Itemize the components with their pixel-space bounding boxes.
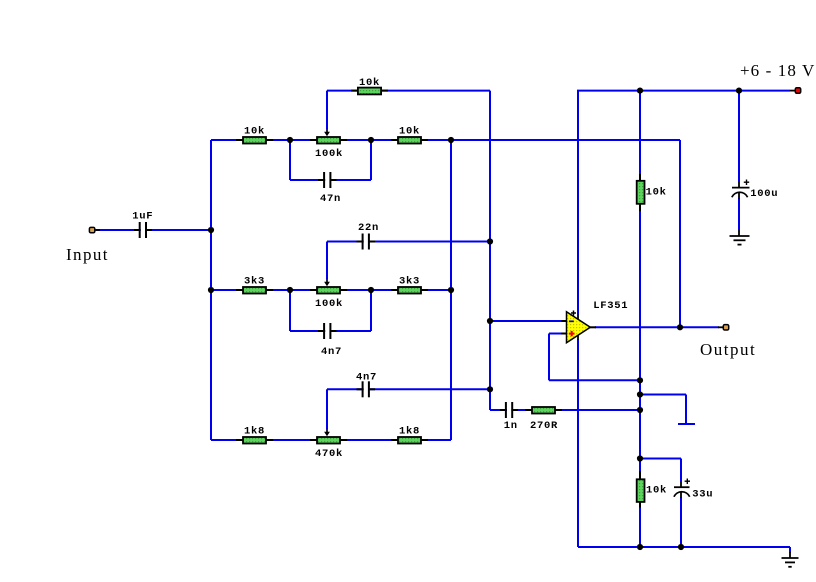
junction ground stub (637, 391, 643, 397)
wire V- supply vertical (577, 340, 579, 548)
terminal input (89, 227, 100, 232)
svg-text:4n7: 4n7 (321, 346, 342, 358)
svg-text:22n: 22n (358, 222, 379, 234)
junction bias top (637, 88, 643, 94)
svg-text:47n: 47n (320, 193, 341, 205)
junction band1 right cap (368, 137, 374, 143)
terminal output (718, 325, 729, 330)
svg-text:10k: 10k (244, 125, 265, 137)
wire 10k feedback row (327, 90, 490, 92)
wire band1 row (211, 139, 680, 141)
wire plus feedback row (549, 379, 640, 381)
wire input bus vertical (210, 140, 212, 440)
svg-text:10k: 10k (646, 186, 667, 198)
op-amp U1 LF351 (561, 300, 628, 343)
svg-text:100u: 100u (750, 188, 778, 200)
potentiometer 100k band1 (310, 129, 347, 160)
svg-text:+6 - 18 V: +6 - 18 V (740, 61, 815, 80)
wire inverting input (490, 320, 563, 322)
wire 33u leg lower (680, 498, 682, 548)
ground bottom right (782, 552, 799, 567)
svg-text:Output: Output (700, 340, 756, 359)
capacitor 33u electrolytic (674, 479, 713, 501)
junction band2 right bus (448, 287, 454, 293)
wire power rail (577, 90, 790, 92)
wire V+ supply vertical (577, 91, 579, 315)
svg-text:1n: 1n (504, 420, 518, 432)
resistor 10k bias upper (vertical) (637, 174, 667, 211)
potentiometer 470k band3 (310, 429, 347, 460)
junction band1 right bus (448, 137, 454, 143)
wire ground stub row (640, 394, 686, 396)
svg-text:1k8: 1k8 (244, 425, 265, 437)
svg-text:3k3: 3k3 (399, 275, 420, 287)
junction 270R bias (637, 407, 643, 413)
junction input node (208, 227, 214, 233)
wire 47n right leg (370, 140, 372, 180)
svg-text:10k: 10k (646, 484, 667, 496)
junction band2 left cap (287, 287, 293, 293)
resistor 10k band1 right (391, 125, 428, 143)
wire 33u row (640, 458, 681, 460)
junction 33u bottom rail (678, 544, 684, 550)
capacitor 22n (357, 222, 380, 250)
wire band2 row (211, 289, 451, 291)
wire wiper2 leg (326, 242, 328, 280)
junction band3 cap inverting bus (487, 386, 493, 392)
terminal power (790, 88, 801, 93)
resistor 10k band1 left (236, 125, 273, 143)
svg-text:270R: 270R (530, 420, 558, 432)
wire band3 cap row (327, 388, 490, 390)
wire 33u leg upper (680, 459, 682, 483)
wire ground stub vertical (685, 395, 687, 425)
wire right bus vertical (450, 140, 452, 440)
potentiometer 100k band2 (310, 279, 347, 310)
resistor 10k bias lower (vertical) (637, 471, 667, 508)
resistor 270R (525, 407, 562, 432)
wire 100u upper leg (738, 91, 740, 182)
wire 100u lower leg (738, 198, 740, 229)
svg-text:LF351: LF351 (593, 300, 628, 312)
junction inverting input (487, 318, 493, 324)
wire 4n7 bridge row (290, 330, 371, 332)
svg-text:100k: 100k (315, 148, 343, 160)
junction band2 right cap (368, 287, 374, 293)
capacitor 47n (318, 172, 341, 205)
capacitor 1uF (132, 211, 153, 238)
wire plus feedback vertical (548, 334, 550, 381)
junction plus feedback (637, 377, 643, 383)
wire 4n7 left leg (289, 290, 291, 331)
junction 22n inverting bus (487, 238, 493, 244)
svg-text:4n7: 4n7 (356, 372, 377, 384)
resistor 1k8 band3 right (391, 425, 428, 443)
svg-text:470k: 470k (315, 448, 343, 460)
svg-text:10k: 10k (399, 125, 420, 137)
svg-text:100k: 100k (315, 298, 343, 310)
capacitor 4n7 band2 bridge (318, 323, 342, 358)
resistor 1k8 band3 left (236, 425, 273, 443)
wire noninverting input (549, 333, 563, 335)
svg-text:1k8: 1k8 (399, 425, 420, 437)
wire bottom ground rail (578, 546, 790, 548)
wire bias bus vertical (639, 91, 641, 547)
svg-text:Input: Input (66, 245, 109, 264)
ground under 100u (730, 229, 750, 245)
junction output node (677, 324, 683, 330)
resistor 3k3 band2 left (236, 275, 273, 293)
junction band2 input (208, 287, 214, 293)
svg-text:33u: 33u (692, 488, 713, 500)
wire output (595, 326, 719, 328)
capacitor 1n (500, 402, 518, 432)
wire inverting bus vertical (489, 91, 491, 410)
junction band1 left cap (287, 137, 293, 143)
junction 100u tap (736, 88, 742, 94)
junction 33u tap (637, 455, 643, 461)
wire 47n left leg (289, 140, 291, 180)
ground bar blue (678, 423, 695, 425)
svg-text:1uF: 1uF (132, 211, 153, 223)
capacitor 4n7 band3 top (356, 372, 377, 398)
wire wiper1 leg (326, 91, 328, 129)
wire 4n7 right leg (370, 290, 372, 331)
resistor 10k feedback top (351, 77, 388, 94)
wire 22n row (327, 241, 490, 243)
wire input row (96, 229, 211, 231)
wire 1n 270R row (490, 409, 640, 411)
wire 47n bridge row (290, 179, 371, 181)
capacitor 100u electrolytic (732, 180, 779, 201)
junction bias bottom rail (637, 544, 643, 550)
svg-text:10k: 10k (359, 77, 380, 89)
wire output feedback vertical (679, 140, 681, 327)
resistor 3k3 band2 right (391, 275, 428, 293)
wire wiper3 leg (326, 389, 328, 429)
wire band3 row (211, 439, 451, 441)
svg-text:3k3: 3k3 (244, 275, 265, 287)
wire to bottom ground (789, 547, 791, 553)
